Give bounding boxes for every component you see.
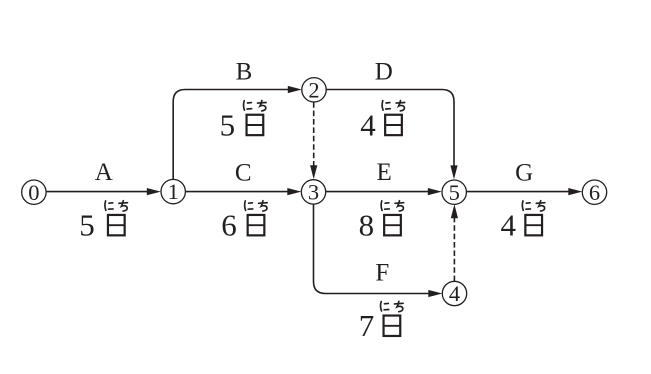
svg-text:G: G: [515, 159, 533, 186]
svg-text:5: 5: [449, 180, 460, 205]
svg-text:0: 0: [28, 180, 39, 205]
svg-text:A: A: [95, 159, 113, 186]
svg-text:5: 5: [79, 208, 95, 243]
svg-text:4: 4: [360, 107, 376, 142]
svg-text:4: 4: [501, 208, 517, 243]
svg-text:2: 2: [308, 77, 319, 102]
svg-text:E: E: [376, 159, 391, 186]
svg-text:7: 7: [359, 308, 375, 343]
svg-text:4: 4: [449, 281, 460, 306]
svg-text:8: 8: [359, 208, 375, 243]
svg-text:C: C: [235, 160, 252, 187]
svg-text:6: 6: [221, 208, 237, 243]
svg-text:6: 6: [589, 180, 600, 205]
svg-text:3: 3: [308, 180, 319, 205]
svg-text:D: D: [375, 59, 393, 86]
svg-text:5: 5: [220, 107, 236, 142]
svg-text:1: 1: [168, 179, 179, 204]
svg-text:B: B: [236, 59, 253, 86]
svg-text:F: F: [375, 259, 389, 286]
